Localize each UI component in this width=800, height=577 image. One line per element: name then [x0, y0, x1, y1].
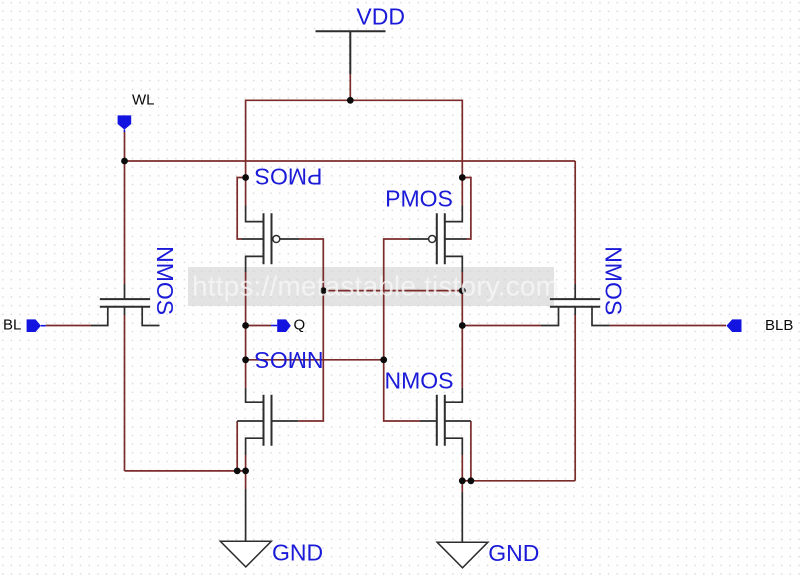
svg-text:NMOS: NMOS	[255, 347, 324, 373]
junction node QB	[459, 322, 466, 329]
junction right source rail	[459, 477, 466, 484]
nmos M3 body bars	[264, 395, 272, 446]
wire right PMOS drain	[461, 178, 463, 206]
svg-text:BL: BL	[3, 317, 21, 334]
svg-text:Q: Q	[294, 317, 306, 334]
pmos M2 body bars	[437, 213, 445, 264]
wire right source column	[461, 272, 463, 388]
wire left access bulk	[124, 315, 126, 471]
pmos M1 gate bubble	[273, 236, 280, 243]
junction left PMOS drain	[242, 174, 249, 181]
wire left inverter gate net	[298, 239, 323, 421]
wire right NMOS source	[461, 455, 463, 481]
wire right GND drop	[461, 481, 463, 492]
svg-text:PMOS: PMOS	[255, 164, 323, 190]
svg-text:GND: GND	[488, 540, 539, 566]
wire right PMOS bulk	[462, 178, 471, 240]
junction left cross	[242, 356, 249, 363]
wire left source column	[245, 272, 247, 360]
junction VDD rail	[347, 97, 354, 104]
svg-text:NMOS: NMOS	[152, 246, 178, 315]
wire WL rail	[125, 160, 576, 162]
nmos M4 gate lead	[420, 420, 437, 422]
svg-text:VDD: VDD	[356, 4, 405, 30]
wire bottom right rail	[462, 480, 575, 482]
VDD supply symbol	[316, 31, 386, 74]
wire left GND drop	[245, 471, 247, 489]
nmos M6 pins	[541, 284, 610, 326]
junction right PMOS drain	[459, 174, 466, 181]
ground symbol left	[220, 541, 271, 567]
watermark band	[188, 267, 554, 306]
nmos M6 access right bars	[550, 299, 600, 307]
pin Q	[277, 319, 291, 332]
svg-text:NMOS: NMOS	[600, 246, 626, 315]
junction right gate corner	[380, 356, 387, 363]
wire Q stub	[246, 325, 271, 327]
svg-text:WL: WL	[132, 92, 155, 109]
svg-text:BLB: BLB	[765, 317, 793, 334]
junction node Q	[242, 322, 249, 329]
wire mid cross QB	[323, 290, 462, 292]
svg-text:GND: GND	[272, 540, 323, 566]
pmos M1 gate lead	[280, 238, 299, 240]
wire right access gate	[574, 161, 576, 284]
wire right inverter gate net	[384, 239, 420, 421]
nmos M5 access left bars	[100, 299, 150, 307]
nmos M3 pins	[237, 388, 263, 455]
junction left gate net	[320, 287, 327, 294]
wire right NMOS bulk	[470, 421, 472, 481]
junction right bulk rail	[468, 477, 475, 484]
pmos M2 gate bubble	[429, 236, 436, 243]
pmos M1 body bars	[264, 213, 272, 264]
pmos M2 gate lead	[409, 238, 429, 240]
wire BLB lead	[610, 325, 727, 327]
nmos M5 pins	[91, 284, 160, 326]
wire left PMOS bulk	[237, 178, 245, 240]
pmos M2 pins	[445, 206, 467, 273]
nmos M4 body bars	[437, 395, 445, 446]
wire bottom left rail	[125, 470, 246, 472]
svg-text:PMOS: PMOS	[385, 186, 453, 212]
wire node right to access	[462, 325, 541, 327]
svg-text:https://metastable.tistory.com: https://metastable.tistory.com	[192, 271, 559, 302]
wire cross Q to right gate	[246, 359, 384, 361]
nmos M4 pins	[445, 388, 471, 455]
ground symbol right	[437, 542, 488, 568]
junction right source mid	[459, 287, 466, 294]
right GND lead	[461, 492, 463, 542]
junction left bulk rail	[234, 468, 241, 475]
wire BL lead	[46, 325, 91, 327]
pin WL	[118, 115, 132, 129]
wire WL pin drop	[124, 132, 126, 162]
wire VDD rail	[246, 100, 463, 177]
wire right access bulk	[574, 315, 576, 481]
wire left PMOS drain	[245, 178, 247, 206]
wire left NMOS bulk	[236, 421, 238, 471]
pmos M1 pins	[242, 206, 264, 273]
left GND lead	[245, 489, 247, 541]
wire VDD stub to rail	[349, 74, 351, 100]
junction left source rail	[242, 468, 249, 475]
junction WL	[121, 158, 128, 165]
pin BL	[27, 319, 41, 332]
pin BLB	[726, 319, 741, 332]
wire left NMOS drain	[245, 360, 247, 388]
wire left access gate	[124, 161, 126, 284]
svg-text:NMOS: NMOS	[385, 368, 454, 394]
wire left NMOS source	[245, 455, 247, 471]
nmos M3 gate lead	[272, 420, 299, 422]
